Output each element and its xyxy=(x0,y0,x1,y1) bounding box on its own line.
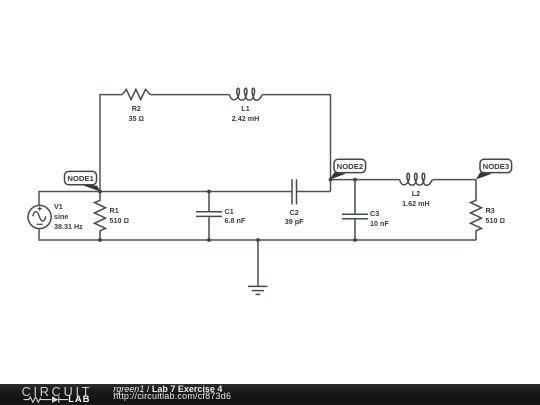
label R3 xyxy=(486,207,495,214)
footer bar xyxy=(0,384,540,405)
label R1 xyxy=(110,207,119,214)
junction dot node1 top xyxy=(98,190,102,194)
node NODE1 flag xyxy=(65,171,101,191)
label L1 xyxy=(241,105,249,112)
label NODE3 xyxy=(483,163,510,171)
wire top branch left vertical and to R2 xyxy=(100,95,122,192)
node NODE2 flag xyxy=(330,159,366,179)
junction dot C3 top xyxy=(353,178,357,182)
capacitor C2 39 pF xyxy=(292,179,297,204)
inductor L1 2.42 mH xyxy=(230,88,263,100)
inductor L2 1.62 mH xyxy=(400,173,433,185)
junction dot C1 top xyxy=(207,190,211,194)
resistor R3 510 Ohm xyxy=(471,180,482,240)
resistor R2 35 Ohm xyxy=(122,89,150,99)
wire L1 to top-right corner and down to NODE2 xyxy=(262,95,330,192)
label C3 xyxy=(370,210,379,217)
label V1 xyxy=(54,203,63,210)
label C1 xyxy=(225,208,234,215)
label NODE1 xyxy=(67,175,94,183)
resistor R1 510 Ohm xyxy=(95,192,106,241)
label NODE2 xyxy=(337,163,364,171)
voltage source V1 sine 38.31 Hz xyxy=(28,205,51,228)
capacitor C1 6.8 nF xyxy=(196,192,222,241)
wire L2 to NODE3 corner xyxy=(432,179,476,181)
node NODE3 flag xyxy=(476,159,512,179)
junction dot ground xyxy=(256,238,260,242)
label R2 xyxy=(132,105,141,112)
junction dot node2 xyxy=(329,178,333,182)
wire NODE2 rail to L2 xyxy=(331,179,400,181)
wire R2 to L1 xyxy=(150,94,229,96)
wire top rail from V1 up and right to C2 left plate xyxy=(39,192,292,206)
ground xyxy=(248,240,268,294)
CircuitLab logo doodle xyxy=(18,384,98,405)
capacitor C3 10 nF xyxy=(342,180,368,240)
label L2 xyxy=(412,190,420,197)
label C2 xyxy=(290,209,299,216)
wire bottom rail xyxy=(39,229,476,241)
wire from C2 right plate to corner under NODE2 xyxy=(297,191,331,193)
junction dot C1 bottom xyxy=(207,238,211,242)
junction dot C3 bottom xyxy=(353,238,357,242)
junction dot R1 bottom xyxy=(98,238,102,242)
